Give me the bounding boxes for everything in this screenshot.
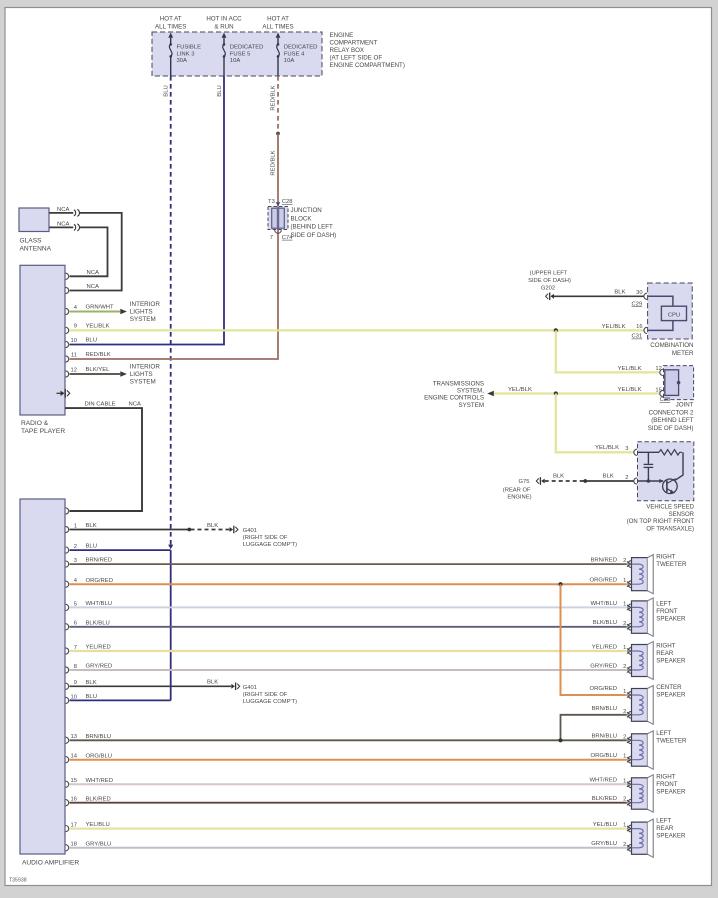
- svg-text:1: 1: [623, 823, 626, 829]
- svg-text:INTERIOR: INTERIOR: [130, 301, 161, 308]
- svg-text:SPEAKER: SPEAKER: [656, 657, 686, 664]
- svg-text:30: 30: [636, 290, 642, 296]
- svg-text:BLK/YEL: BLK/YEL: [86, 367, 111, 373]
- svg-text:ORG/RED: ORG/RED: [590, 686, 618, 692]
- svg-text:FUSE 5: FUSE 5: [230, 51, 251, 57]
- svg-text:DEDICATED: DEDICATED: [230, 45, 264, 51]
- antenna lead NCA (bottom): [49, 222, 108, 277]
- wire RED/BLK solid upper: [271, 134, 278, 207]
- wire BLK G202 to combination meter pin 30: [554, 290, 644, 297]
- svg-text:INTERIOR: INTERIOR: [130, 364, 161, 371]
- radio pin 4 GRN/WHT to interior lights system: [66, 301, 161, 323]
- CPU box: [661, 306, 686, 320]
- svg-text:SPEAKER: SPEAKER: [656, 788, 686, 795]
- svg-text:SYSTEM: SYSTEM: [130, 378, 156, 385]
- svg-text:15: 15: [655, 387, 661, 393]
- svg-text:AUDIO AMPLIFIER: AUDIO AMPLIFIER: [22, 859, 79, 866]
- svg-text:RIGHT: RIGHT: [656, 554, 675, 561]
- svg-text:11: 11: [71, 352, 77, 358]
- vehicle speed sensor: [638, 442, 694, 501]
- svg-text:BRN/RED: BRN/RED: [590, 558, 617, 564]
- svg-text:TWEETER: TWEETER: [656, 561, 687, 568]
- svg-text:1: 1: [623, 689, 626, 695]
- svg-text:6: 6: [74, 621, 77, 627]
- svg-text:NCA: NCA: [57, 222, 70, 228]
- VSS internal collector wire: [675, 452, 683, 480]
- svg-text:13: 13: [71, 734, 77, 740]
- diagram id: [9, 878, 27, 884]
- wire BLU vertical amp pin2 to pin10: [170, 550, 172, 700]
- svg-text:16: 16: [636, 324, 642, 330]
- svg-text:G202: G202: [541, 285, 555, 291]
- wire BRN/BLU center speaker to left tweeter line: [561, 706, 627, 740]
- svg-text:2: 2: [623, 734, 626, 740]
- svg-text:C38: C38: [660, 397, 671, 403]
- svg-text:BRN/BLU: BRN/BLU: [591, 706, 617, 712]
- svg-text:C29: C29: [632, 301, 643, 307]
- svg-text:CPU: CPU: [668, 312, 680, 318]
- svg-text:BLK/BLU: BLK/BLU: [86, 620, 110, 626]
- svg-text:10: 10: [71, 338, 77, 344]
- svg-text:16: 16: [71, 797, 77, 803]
- svg-text:REAR: REAR: [656, 825, 674, 832]
- svg-text:COMBINATION: COMBINATION: [650, 342, 693, 349]
- svg-text:LEFT: LEFT: [656, 601, 671, 608]
- svg-text:1: 1: [623, 754, 626, 760]
- svg-text:30A: 30A: [177, 58, 188, 64]
- svg-text:LIGHTS: LIGHTS: [130, 309, 153, 316]
- svg-text:BLU: BLU: [86, 694, 97, 700]
- svg-text:FUSE 4: FUSE 4: [284, 51, 305, 57]
- svg-text:YEL/BLK: YEL/BLK: [602, 324, 626, 330]
- svg-text:BLK: BLK: [207, 680, 218, 686]
- svg-text:FUSIBLE: FUSIBLE: [177, 45, 202, 51]
- svg-text:GRY/RED: GRY/RED: [590, 663, 617, 669]
- audio amplifier: [20, 499, 79, 866]
- svg-text:RED/BLK: RED/BLK: [271, 85, 277, 110]
- svg-text:SIDE OF DASH): SIDE OF DASH): [291, 232, 337, 239]
- svg-text:BLOCK: BLOCK: [291, 215, 313, 222]
- combination meter pin 30 / C29: [632, 290, 647, 307]
- svg-text:BLU: BLU: [164, 85, 170, 96]
- svg-text:(REAR OF: (REAR OF: [503, 488, 531, 494]
- DIN cable wire radio to amplifier: [65, 401, 142, 514]
- combination meter pin 16 / C31 + YEL/BLK label: [602, 324, 647, 340]
- svg-text:TWEETER: TWEETER: [656, 738, 687, 745]
- svg-text:SYSTEM: SYSTEM: [459, 402, 484, 409]
- amp pin 8 GRY/RED to speaker: [66, 663, 627, 673]
- svg-text:NCA: NCA: [129, 401, 142, 407]
- svg-text:GRN/WHT: GRN/WHT: [86, 305, 115, 311]
- svg-text:(BEHIND LEFT: (BEHIND LEFT: [651, 417, 694, 424]
- svg-text:ALL TIMES: ALL TIMES: [262, 23, 293, 30]
- svg-text:GRY/BLU: GRY/BLU: [591, 841, 617, 847]
- svg-text:NCA: NCA: [57, 207, 70, 213]
- joint connector 2: [664, 366, 694, 400]
- svg-text:LUGGAGE COMP'T): LUGGAGE COMP'T): [243, 699, 297, 705]
- ground G202: [528, 271, 571, 301]
- svg-text:SIDE OF DASH): SIDE OF DASH): [648, 425, 694, 432]
- svg-text:OF TRANSAXLE): OF TRANSAXLE): [646, 527, 694, 533]
- ground G401 (amp pin 9): [231, 683, 297, 705]
- svg-text:FRONT: FRONT: [656, 781, 678, 788]
- svg-text:10: 10: [71, 694, 77, 700]
- VSS internal base wire + junction: [638, 479, 664, 483]
- svg-text:2: 2: [623, 842, 626, 848]
- center speaker: [623, 684, 686, 724]
- svg-text:ENGINE): ENGINE): [507, 494, 531, 500]
- svg-text:10A: 10A: [230, 58, 241, 64]
- svg-text:SENSOR: SENSOR: [669, 512, 695, 518]
- svg-text:1: 1: [623, 578, 626, 584]
- svg-text:SIDE OF DASH): SIDE OF DASH): [528, 278, 571, 284]
- svg-text:HOT IN ACC: HOT IN ACC: [206, 16, 242, 23]
- engine compartment relay box: [152, 32, 405, 76]
- svg-text:SPEAKER: SPEAKER: [656, 692, 686, 699]
- svg-text:NCA: NCA: [87, 284, 100, 290]
- right front speaker: [623, 774, 686, 813]
- svg-text:LIGHTS: LIGHTS: [130, 371, 153, 378]
- svg-text:1: 1: [623, 778, 626, 784]
- svg-text:C31: C31: [632, 334, 643, 340]
- svg-text:(RIGHT SIDE OF: (RIGHT SIDE OF: [243, 692, 288, 698]
- dedicated fuse 4: [262, 16, 317, 76]
- svg-text:10A: 10A: [284, 58, 295, 64]
- wire RED/BLK solid lower (junction block to radio pin 11): [70, 230, 279, 360]
- VSS internal capacitor: [644, 452, 654, 481]
- svg-text:(AT LEFT SIDE OF: (AT LEFT SIDE OF: [330, 54, 383, 61]
- vehicle speed sensor label: [627, 504, 695, 532]
- svg-text:TRANSMISSIONS: TRANSMISSIONS: [433, 381, 484, 388]
- svg-text:RED/BLK: RED/BLK: [271, 150, 277, 175]
- svg-text:HOT AT: HOT AT: [267, 16, 289, 23]
- svg-text:NCA: NCA: [87, 270, 100, 276]
- svg-text:LINK 3: LINK 3: [177, 51, 196, 57]
- svg-text:RADIO &: RADIO &: [21, 420, 49, 427]
- svg-text:2: 2: [623, 797, 626, 803]
- svg-text:1: 1: [623, 601, 626, 607]
- svg-text:2: 2: [623, 558, 626, 564]
- svg-text:WHT/RED: WHT/RED: [86, 778, 114, 784]
- svg-text:BRN/RED: BRN/RED: [86, 558, 113, 564]
- svg-text:WHT/RED: WHT/RED: [590, 778, 618, 784]
- VSS transistor: [663, 479, 678, 494]
- svg-text:METER: METER: [672, 350, 694, 357]
- wire BLK G75 to VSS pin 2: [545, 473, 634, 483]
- amp pin 16 BLK/RED to speaker: [66, 796, 627, 806]
- VSS pin 2: [625, 475, 637, 484]
- svg-text:YEL/BLK: YEL/BLK: [618, 387, 642, 393]
- svg-text:BLK/BLU: BLK/BLU: [593, 620, 617, 626]
- svg-text:12: 12: [655, 366, 661, 372]
- svg-text:ORG/BLU: ORG/BLU: [86, 753, 113, 759]
- left rear speaker: [623, 818, 686, 858]
- svg-text:YEL/RED: YEL/RED: [592, 644, 617, 650]
- svg-text:ENGINE: ENGINE: [330, 32, 354, 39]
- svg-text:RIGHT: RIGHT: [656, 643, 675, 650]
- svg-text:BLK: BLK: [603, 473, 614, 479]
- svg-text:G401: G401: [243, 685, 257, 691]
- svg-text:1: 1: [623, 645, 626, 651]
- svg-text:BLK: BLK: [553, 473, 564, 479]
- svg-text:G75: G75: [519, 479, 530, 485]
- radio pin 12 BLK/YEL to interior lights system: [66, 364, 161, 386]
- svg-text:T35938: T35938: [9, 878, 27, 884]
- arrow to transmissions system: [424, 381, 494, 409]
- joint connector pin 15 / C38: [618, 387, 671, 403]
- svg-text:BLU: BLU: [217, 85, 223, 96]
- svg-text:G401: G401: [243, 528, 257, 534]
- junction dot ORG/RED: [558, 582, 562, 586]
- right rear speaker: [623, 642, 686, 680]
- svg-text:HOT AT: HOT AT: [160, 16, 182, 23]
- amp pin 14 ORG/BLU to speaker: [66, 753, 627, 763]
- svg-text:YEL/BLK: YEL/BLK: [86, 324, 110, 330]
- svg-text:5: 5: [74, 601, 77, 607]
- svg-text:2: 2: [623, 621, 626, 627]
- junction dot YEL/BLK lower: [554, 391, 558, 395]
- combination meter label: [650, 342, 694, 357]
- svg-text:GRY/RED: GRY/RED: [86, 664, 113, 670]
- svg-text:WHT/BLU: WHT/BLU: [86, 601, 113, 607]
- svg-text:JUNCTION: JUNCTION: [291, 207, 322, 214]
- svg-text:LEFT: LEFT: [656, 730, 671, 737]
- joint connector pin 12: [618, 366, 663, 376]
- dedicated fuse 5: [206, 16, 263, 76]
- amp pin 7 YEL/RED to speaker: [66, 644, 627, 654]
- junction dot YEL/BLK upper: [554, 328, 558, 332]
- wire YEL/BLK transmissions branch: [494, 387, 660, 394]
- svg-text:C28: C28: [282, 199, 293, 205]
- left front speaker: [623, 598, 686, 636]
- svg-text:RIGHT: RIGHT: [656, 774, 675, 781]
- amp pin 6 BLK/BLU to speaker: [66, 620, 627, 630]
- svg-text:& RUN: & RUN: [214, 23, 233, 30]
- svg-text:9: 9: [74, 680, 77, 686]
- antenna lead NCA (top): [49, 207, 122, 291]
- right tweeter: [623, 554, 687, 594]
- svg-text:ANTENNA: ANTENNA: [20, 246, 52, 253]
- amp pin 15 WHT/RED to speaker: [66, 778, 627, 788]
- svg-text:WHT/BLU: WHT/BLU: [590, 601, 617, 607]
- amp pin 18 GRY/BLU to speaker: [66, 841, 627, 851]
- svg-text:YEL/BLU: YEL/BLU: [86, 822, 110, 828]
- svg-text:YEL/BLU: YEL/BLU: [593, 822, 617, 828]
- svg-text:BLK/RED: BLK/RED: [592, 796, 617, 802]
- VSS internal resistor: [638, 450, 683, 455]
- svg-text:CONNECTOR 2: CONNECTOR 2: [649, 409, 694, 416]
- svg-text:YEL/BLK: YEL/BLK: [618, 366, 642, 372]
- wire RED/BLK (dedicated fuse 4 to junction block): [271, 76, 278, 133]
- amp pin 3 BRN/RED to speaker: [66, 558, 627, 568]
- svg-text:DIN CABLE: DIN CABLE: [85, 401, 116, 407]
- svg-text:GRY/BLU: GRY/BLU: [86, 841, 112, 847]
- svg-text:SPEAKER: SPEAKER: [656, 615, 686, 622]
- svg-text:TAPE PLAYER: TAPE PLAYER: [21, 428, 65, 435]
- amp pin 5 WHT/BLU to speaker: [66, 601, 627, 611]
- svg-text:2: 2: [623, 664, 626, 670]
- svg-text:2: 2: [74, 544, 77, 550]
- svg-text:YEL/BLK: YEL/BLK: [508, 387, 532, 393]
- junction dot BRN/BLU: [558, 738, 562, 742]
- svg-text:DEDICATED: DEDICATED: [284, 45, 318, 51]
- svg-text:2: 2: [623, 709, 626, 715]
- svg-text:(BEHIND LEFT: (BEHIND LEFT: [291, 224, 334, 231]
- svg-text:ORG/RED: ORG/RED: [86, 578, 114, 584]
- svg-text:SYSTEM: SYSTEM: [130, 316, 156, 323]
- amp pin 9 BLK to ground G401: [66, 680, 232, 690]
- svg-text:VEHICLE SPEED: VEHICLE SPEED: [646, 504, 694, 510]
- svg-text:BLK: BLK: [207, 523, 218, 529]
- svg-text:3: 3: [74, 558, 77, 564]
- wire YEL/BLK vertical to joint connector pin 12: [556, 330, 660, 372]
- svg-text:T3: T3: [268, 199, 275, 205]
- svg-text:7: 7: [270, 235, 273, 241]
- amp pin 2 BLU: [66, 544, 171, 554]
- radio pin 10 BLU: [66, 338, 97, 348]
- joint connector 2 label: [648, 402, 694, 432]
- svg-text:BLK/RED: BLK/RED: [86, 796, 111, 802]
- glass antenna: [19, 208, 52, 253]
- junction marker at amp BLU wire: [168, 545, 173, 550]
- svg-text:12: 12: [71, 367, 77, 373]
- svg-text:CENTER: CENTER: [656, 684, 682, 691]
- svg-text:BLK: BLK: [614, 290, 625, 296]
- svg-text:RED/BLK: RED/BLK: [86, 352, 111, 358]
- amp pin 17 YEL/BLU to speaker: [66, 822, 627, 832]
- amp pin 1 BLK to ground G401: [66, 523, 230, 533]
- radio & tape player: [20, 265, 65, 435]
- svg-text:BLK: BLK: [86, 680, 97, 686]
- svg-text:YEL/BLK: YEL/BLK: [595, 445, 619, 451]
- svg-text:ORG/BLU: ORG/BLU: [590, 753, 617, 759]
- junction dot on RED/BLK: [276, 132, 280, 136]
- svg-text:(UPPER LEFT: (UPPER LEFT: [530, 271, 568, 277]
- wire ORG/RED vertical to center speaker: [561, 584, 627, 695]
- svg-text:ENGINE COMPARTMENT): ENGINE COMPARTMENT): [330, 62, 405, 69]
- svg-text:BLK: BLK: [86, 523, 97, 529]
- svg-text:COMPARTMENT: COMPARTMENT: [330, 40, 378, 47]
- svg-text:(ON TOP RIGHT FRONT: (ON TOP RIGHT FRONT: [627, 519, 695, 525]
- fusible link 3: [155, 16, 201, 76]
- amp pin 10 BLU: [66, 694, 171, 704]
- wire BLU solid (dedicated fuse 5 to radio pin 10): [70, 76, 225, 345]
- svg-text:ALL TIMES: ALL TIMES: [155, 23, 186, 30]
- radio pin 9 YEL/BLK wire to combination meter: [66, 324, 644, 334]
- svg-text:14: 14: [71, 754, 78, 760]
- svg-text:SYSTEM,: SYSTEM,: [457, 388, 484, 395]
- svg-text:REAR: REAR: [656, 650, 674, 657]
- svg-text:(RIGHT SIDE OF: (RIGHT SIDE OF: [243, 535, 288, 541]
- svg-text:YEL/RED: YEL/RED: [86, 645, 111, 651]
- wire YEL/BLK vertical to vehicle speed sensor: [556, 394, 634, 453]
- amp pin 13 BRN/BLU to speaker: [66, 734, 627, 744]
- svg-text:FRONT: FRONT: [656, 608, 678, 615]
- svg-text:1: 1: [74, 523, 77, 529]
- junction block: [268, 199, 336, 241]
- svg-text:LEFT: LEFT: [656, 818, 671, 825]
- svg-text:SPEAKER: SPEAKER: [656, 833, 686, 840]
- svg-text:9: 9: [74, 324, 77, 330]
- left tweeter: [623, 730, 687, 769]
- ground G75: [503, 477, 545, 500]
- svg-text:BRN/BLU: BRN/BLU: [591, 734, 617, 740]
- svg-text:BLU: BLU: [86, 338, 97, 344]
- VSS pin 3: [625, 446, 637, 455]
- svg-text:JOINT: JOINT: [676, 402, 694, 409]
- radio antenna pins: [66, 273, 69, 293]
- svg-text:BRN/BLU: BRN/BLU: [86, 734, 112, 740]
- svg-text:ENGINE CONTROLS: ENGINE CONTROLS: [424, 395, 484, 402]
- radio DIN connector symbol: [57, 389, 70, 398]
- svg-text:2: 2: [625, 475, 628, 481]
- svg-text:LUGGAGE COMP'T): LUGGAGE COMP'T): [243, 542, 297, 548]
- combination meter: [648, 283, 693, 339]
- wire BLU dashed (fusible link 3 to amp pin 2): [164, 76, 171, 545]
- svg-text:BLU: BLU: [86, 544, 97, 550]
- radio pin 11 RED/BLK: [66, 352, 111, 362]
- ground G401 (amp pin 1): [230, 526, 298, 548]
- amp pin 4 ORG/RED to speaker: [66, 578, 627, 588]
- svg-text:ORG/RED: ORG/RED: [590, 578, 618, 584]
- svg-text:GLASS: GLASS: [20, 238, 43, 245]
- svg-text:RELAY BOX: RELAY BOX: [330, 47, 365, 54]
- svg-text:3: 3: [625, 446, 628, 452]
